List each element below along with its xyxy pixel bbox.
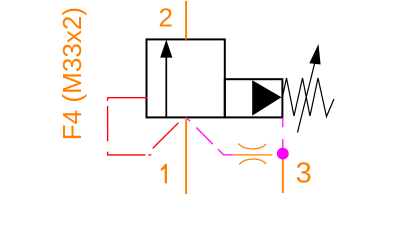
svg-text:2: 2 (159, 3, 173, 33)
svg-text:3: 3 (296, 158, 312, 190)
svg-text:F4 (M33x2): F4 (M33x2) (57, 7, 87, 140)
